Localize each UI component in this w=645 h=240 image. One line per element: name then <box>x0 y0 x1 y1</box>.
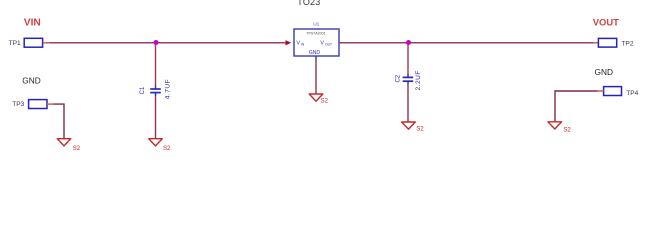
svg-text:S2: S2 <box>163 146 171 152</box>
svg-text:TP1: TP1 <box>9 40 21 47</box>
svg-text:C1: C1 <box>140 86 146 94</box>
junction node (VIN / C1) <box>154 40 159 45</box>
svg-text:OUT: OUT <box>325 43 332 47</box>
wire U1 VOUT to TP2 <box>339 42 593 44</box>
wire junction to C2 <box>407 45 409 75</box>
svg-text:U1: U1 <box>313 21 319 27</box>
capacitor C1 4.7UF <box>140 79 171 99</box>
test point TP1 <box>9 38 50 47</box>
junction node (VOUT / C2) <box>406 40 411 45</box>
ground S2 (C2) <box>402 122 425 133</box>
svg-text:4.7UF: 4.7UF <box>164 79 171 99</box>
test point TP3 <box>12 100 53 109</box>
wire C2 to ground <box>407 85 409 122</box>
svg-text:TPS7A2001: TPS7A2001 <box>306 32 325 36</box>
wire C1 to ground <box>155 96 157 138</box>
ground S2 (C1) <box>149 139 171 152</box>
wire U1 GND to ground <box>315 61 317 94</box>
svg-text:TP3: TP3 <box>12 101 24 108</box>
wire TP4 to ground <box>555 91 598 121</box>
test point TP4 <box>598 87 639 97</box>
svg-text:V: V <box>296 41 300 47</box>
wire TP3 to ground <box>54 104 65 138</box>
wire TP1 to U1 VIN <box>50 42 286 44</box>
svg-text:GND: GND <box>595 67 613 77</box>
svg-text:TP4: TP4 <box>626 90 638 97</box>
ground S2 (U1) <box>309 94 328 104</box>
ground S2 (TP4) <box>548 122 571 134</box>
op-amp / regulator U1 body <box>294 29 339 56</box>
svg-text:S2: S2 <box>416 127 424 133</box>
ground S2 (TP3) <box>57 139 81 152</box>
svg-text:VOUT: VOUT <box>593 17 619 28</box>
svg-text:S2: S2 <box>563 127 571 133</box>
svg-text:S2: S2 <box>73 146 81 152</box>
input pin arrow <box>286 40 292 45</box>
svg-text:VIN: VIN <box>24 18 41 29</box>
svg-text:S2: S2 <box>321 98 329 104</box>
svg-text:TP2: TP2 <box>621 40 633 47</box>
svg-text:GND: GND <box>22 76 40 86</box>
wire junction to C1 <box>155 45 157 87</box>
svg-text:C2: C2 <box>396 74 402 82</box>
svg-text:TO23: TO23 <box>297 0 320 7</box>
svg-text:2.2UF: 2.2UF <box>415 70 422 90</box>
svg-text:V: V <box>320 41 324 47</box>
svg-text:GND: GND <box>309 50 321 56</box>
test point TP2 <box>593 38 634 47</box>
capacitor C2 2.2UF <box>396 70 423 90</box>
U1 GND pin stub <box>315 56 317 61</box>
